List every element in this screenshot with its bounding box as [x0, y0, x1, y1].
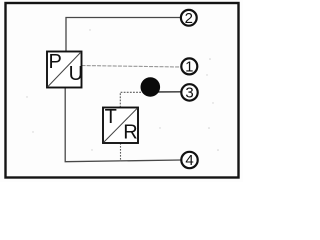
border frame: [6, 3, 239, 178]
svg-text:T: T: [105, 106, 117, 128]
svg-text:2: 2: [185, 10, 193, 27]
terminal 4: [181, 152, 197, 169]
wire: circle2 to P/U top: [66, 18, 181, 52]
svg-text:P: P: [49, 51, 62, 73]
node: junction dot: [141, 77, 161, 97]
wire: junction to circle3: [150, 91, 181, 93]
transducer T/R box: [103, 106, 138, 143]
wire: P/U bottom down and right to circle4: [65, 88, 181, 162]
svg-text:3: 3: [185, 85, 193, 102]
svg-text:4: 4: [185, 152, 193, 169]
terminal 2: [181, 10, 197, 27]
svg-text:1: 1: [185, 59, 193, 76]
wire: T/R bottom stub: [120, 143, 122, 161]
terminal 1: [181, 58, 197, 75]
wire: T/R top up to junction line: [120, 92, 141, 107]
svg-text:U: U: [69, 63, 83, 85]
wire: P/U right to circle1 (faint grey): [82, 66, 182, 68]
transducer P/U box: [47, 51, 83, 87]
svg-text:R: R: [123, 122, 137, 144]
terminal 3: [181, 84, 197, 101]
